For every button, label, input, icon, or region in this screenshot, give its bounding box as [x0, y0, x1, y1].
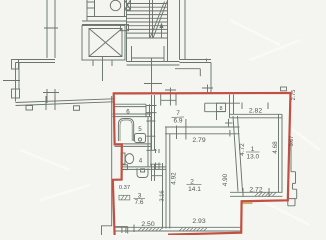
stair direction arrow — [161, 24, 163, 38]
corridor inner line — [175, 69, 200, 77]
room 6 right wall — [146, 104, 150, 116]
stairwell left wall — [126, 0, 128, 62]
entry corridor divider — [144, 58, 162, 94]
building right wall — [180, 0, 186, 60]
small box under corridor wall 2 — [74, 106, 80, 111]
hall-room2 wall — [163, 127, 170, 229]
red outline main path — [114, 93, 291, 235]
svg-text:7.6: 7.6 — [134, 199, 143, 206]
svg-text:3.07: 3.07 — [289, 136, 295, 147]
stair treads — [127, 4, 168, 39]
kitchen door jambs — [150, 149, 162, 176]
bathroom sink circle — [138, 138, 141, 141]
wall: lower section of same wall — [43, 89, 59, 103]
cross tick above red at x170 — [165, 88, 176, 94]
svg-text:14.1: 14.1 — [188, 186, 201, 193]
svg-text:4: 4 — [139, 158, 143, 165]
toilet room right wall — [148, 146, 151, 167]
tick on toilet right wall — [146, 149, 156, 151]
svg-text:2.82: 2.82 — [249, 108, 262, 115]
washbasin tap box — [141, 169, 145, 172]
tick right of box8 — [225, 122, 233, 124]
outer wall steps right of red — [288, 140, 297, 206]
svg-text:2.79: 2.79 — [192, 137, 205, 144]
bathroom right wall — [148, 117, 151, 146]
hall washbasin — [137, 168, 148, 177]
room2 fraction line — [187, 184, 202, 186]
strip top line — [205, 102, 240, 104]
red outline left side — [113, 92, 122, 235]
vertical right of box8 — [228, 119, 230, 127]
kitchen left wall upper — [152, 95, 155, 151]
wall: corridor bottom horizontal — [16, 99, 114, 106]
landing walls below stairs — [132, 46, 168, 62]
svg-text:6.9: 6.9 — [173, 118, 182, 125]
svg-text:5: 5 — [138, 126, 142, 133]
stairwell right wall — [167, 0, 169, 46]
toilet corner box — [122, 165, 128, 170]
wall: top horizontal corridor — [16, 60, 56, 63]
elevator car inner with X — [89, 29, 122, 57]
hatch block bottom wall under 2.50 — [138, 228, 163, 231]
svg-text:2.72: 2.72 — [249, 187, 262, 194]
room2 top wall — [165, 127, 240, 134]
elevator door ticks — [93, 57, 112, 82]
svg-text:4.92: 4.92 — [170, 172, 177, 185]
svg-text:4.68: 4.68 — [272, 141, 279, 154]
svg-text:7: 7 — [176, 110, 180, 117]
wall: double vertical top-left — [44, 0, 58, 58]
apartment interior slightly lighter — [113, 93, 290, 235]
toilet room bottom wall — [122, 167, 166, 170]
svg-text:2.93: 2.93 — [192, 218, 205, 225]
bathroom sink — [135, 134, 146, 143]
toilet bowl — [125, 154, 133, 164]
bathroom bottom wall — [115, 144, 152, 147]
wall: double horizontal above elevator — [82, 21, 126, 25]
tick crossing corridor wall at x46 — [45, 96, 47, 110]
kitchen fraction line — [172, 116, 185, 119]
small box under corridor wall — [26, 106, 33, 111]
small x-box right of chute — [125, 0, 131, 17]
elevator shaft outer — [82, 26, 125, 61]
svg-text:13.0: 13.0 — [246, 154, 259, 161]
stair center stringer — [150, 0, 153, 38]
room1 fraction line — [246, 151, 260, 153]
bottom wall door ticks — [122, 225, 134, 234]
toilet tank — [121, 153, 125, 164]
closet hatch icon in hall — [119, 195, 130, 200]
garbage chute circle — [110, 0, 120, 10]
cross tick above red at x207 — [202, 85, 213, 95]
room1 top wall — [230, 114, 283, 118]
svg-text:0.37: 0.37 — [119, 185, 130, 191]
gray wall line under left red — [111, 96, 113, 226]
corridor lower walls — [127, 62, 180, 66]
small white box above top-right red corner — [281, 87, 287, 91]
bathtub inner line — [120, 120, 132, 141]
small box left of stairs — [121, 25, 129, 31]
room1 bottom dim ticks — [243, 188, 269, 197]
svg-text:2.50: 2.50 — [141, 221, 154, 228]
hatch block bottom wall under 2.93 — [179, 228, 207, 231]
stair flight diagonals — [150, 2, 167, 39]
room1 bottom wall — [230, 192, 283, 196]
hall fraction line — [134, 197, 146, 199]
room 6 top wall — [115, 104, 147, 106]
svg-text:4.72: 4.72 — [239, 143, 246, 156]
ticks on bathroom right wall — [146, 121, 155, 136]
room2 bottom wall — [115, 227, 242, 231]
entry door ticks below red — [161, 94, 176, 106]
garbage chute room walls — [87, 0, 127, 21]
bathtub — [118, 119, 133, 142]
box 8 — [217, 103, 226, 111]
room 6 bottom wall — [113, 114, 152, 117]
tick on left wall — [3, 80, 20, 82]
vertical below box8 — [216, 112, 218, 120]
wall: left corridor vertical — [16, 63, 20, 102]
2.82 dimension ticks — [242, 103, 268, 110]
corridor right vertical to apartment — [210, 63, 212, 95]
svg-text:8: 8 — [219, 106, 222, 112]
svg-text:2.75: 2.75 — [291, 90, 297, 101]
kitchen box8 left wall — [205, 103, 226, 112]
red apartment boundary — [113, 92, 291, 235]
room1 left wall / room2 right wall — [233, 116, 243, 192]
kitchen left wall lower — [152, 164, 155, 181]
paper texture streaks — [20, 20, 320, 225]
neighbor wall bottom-left — [101, 226, 112, 235]
stair arrow head — [159, 23, 163, 29]
yellow block at red corner — [241, 200, 252, 203]
hall bottom wall left stub — [115, 227, 127, 234]
hatch block room1 bottom wall — [255, 193, 276, 197]
corridor wall step right — [180, 59, 212, 63]
svg-text:3.16: 3.16 — [159, 190, 165, 201]
svg-text:6: 6 — [126, 109, 130, 116]
tick crossing corridor wall at x55 — [54, 96, 56, 110]
room2 top wall ticks — [177, 119, 230, 140]
room1 top-left notch — [230, 95, 234, 118]
small rect on chute room left wall — [87, 2, 95, 8]
ticks on room6 right wall — [146, 106, 157, 113]
pier block upper — [12, 60, 19, 70]
svg-text:4.90: 4.90 — [222, 173, 229, 186]
room1 right wall — [279, 114, 283, 192]
pier block lower — [12, 89, 20, 98]
